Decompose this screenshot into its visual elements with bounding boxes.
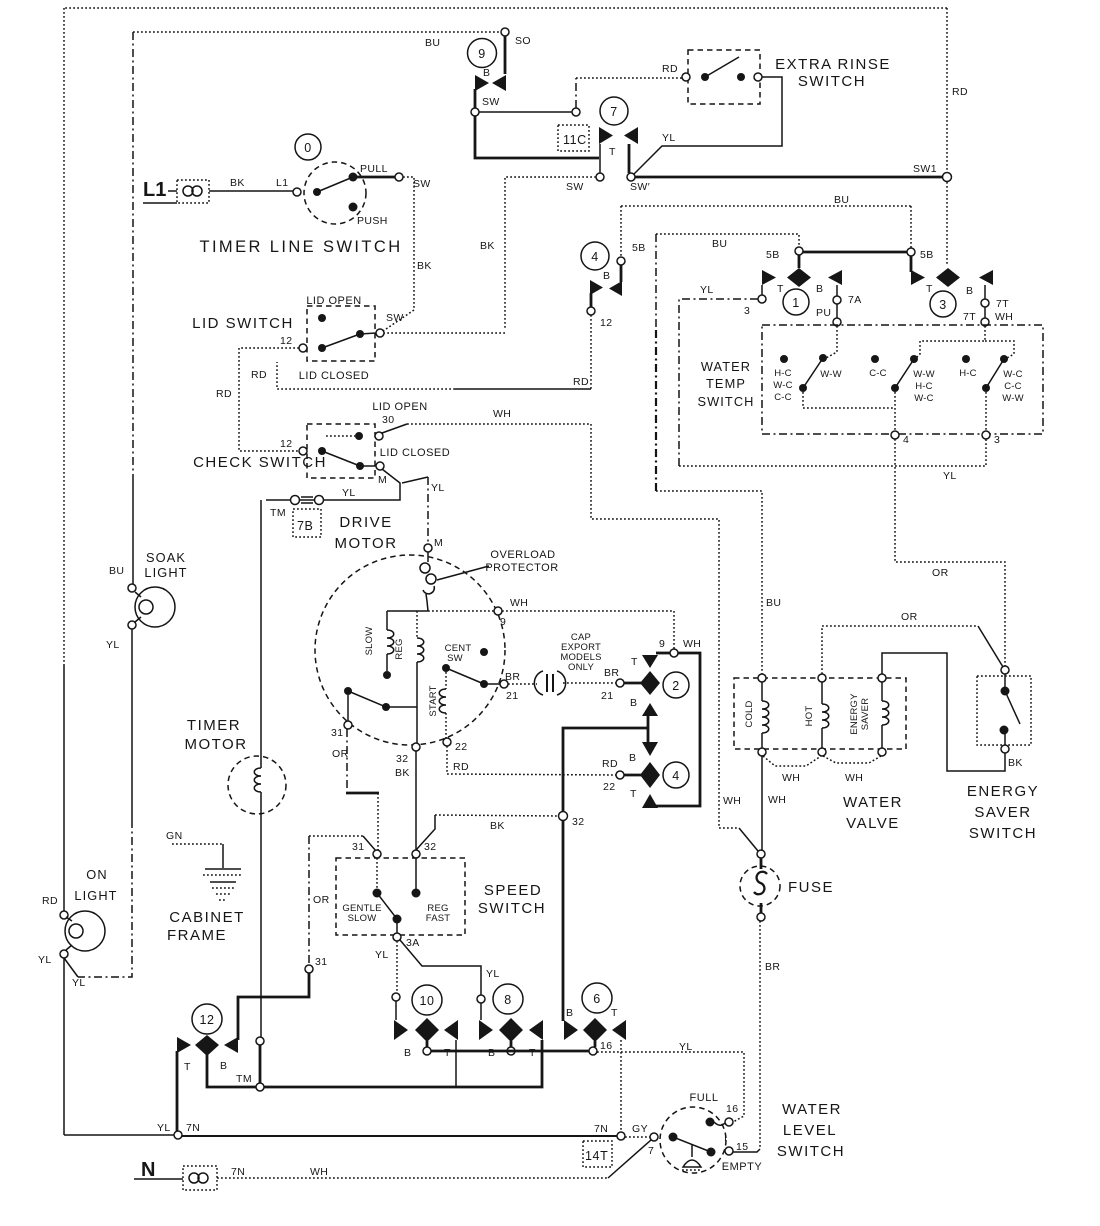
wire BK speed switch to node 32	[435, 815, 559, 816]
svg-text:L1: L1	[143, 179, 166, 201]
wire motor reg to node 32	[416, 707, 418, 743]
svg-text:ENERGY: ENERGY	[849, 693, 860, 735]
svg-text:RD: RD	[453, 761, 469, 773]
wire YL node3 to water temp pin3	[679, 299, 758, 466]
svg-text:SW: SW	[386, 312, 404, 324]
svg-text:B: B	[630, 697, 637, 709]
svg-text:3A: 3A	[406, 937, 420, 949]
svg-text:32: 32	[572, 816, 584, 828]
svg-text:HOT: HOT	[804, 706, 815, 727]
svg-text:SW1: SW1	[913, 163, 937, 175]
on light	[38, 867, 118, 989]
switch 4 contact triangles	[590, 270, 622, 296]
svg-text:GY: GY	[632, 1123, 648, 1135]
node 4 water temp	[891, 431, 899, 439]
svg-text:WATER: WATER	[843, 794, 903, 811]
wire SW node right to junction	[479, 111, 572, 113]
svg-text:PULL: PULL	[360, 163, 388, 175]
svg-text:4: 4	[672, 769, 680, 783]
svg-text:10: 10	[419, 994, 434, 1008]
svg-text:I: I	[724, 1132, 727, 1144]
svg-text:TEMP: TEMP	[706, 376, 746, 391]
node 32 motor	[412, 743, 420, 751]
switch 4 cam symbol	[629, 742, 660, 808]
node 22 motor	[443, 738, 451, 746]
svg-text:H-C: H-C	[774, 368, 792, 379]
node SO	[501, 28, 509, 36]
wire left RD run lower to ON light	[63, 665, 65, 911]
wire bank1 pivot to node 4	[803, 392, 895, 408]
svg-text:3: 3	[939, 298, 947, 312]
wire switch4 node to right triangle	[620, 265, 623, 282]
svg-text:B: B	[629, 752, 636, 764]
svg-text:L1: L1	[276, 177, 288, 189]
svg-text:5B: 5B	[632, 242, 646, 254]
svg-text:GN: GN	[166, 830, 183, 842]
svg-text:7T: 7T	[996, 298, 1009, 310]
fuse	[740, 850, 780, 921]
node SW (switch 7 left)	[596, 173, 604, 181]
svg-text:5B: 5B	[766, 249, 780, 261]
svg-text:16: 16	[726, 1103, 738, 1115]
centrifugal switch	[442, 643, 500, 688]
speed switch contacts	[342, 858, 450, 933]
wire thick 5B to 5B	[803, 251, 907, 254]
wire switch3 right triangle to 7T	[984, 285, 986, 299]
svg-text:BK: BK	[480, 240, 495, 252]
svg-text:RD: RD	[602, 758, 618, 770]
svg-text:32: 32	[396, 753, 408, 765]
svg-text:T: T	[630, 788, 637, 800]
svg-text:PUSH: PUSH	[357, 215, 388, 227]
wire lid switch SW to switch 7 left: dotted path	[505, 177, 596, 330]
wire L1 to timer line switch	[209, 190, 293, 192]
svg-text:B: B	[220, 1060, 227, 1072]
check switch contacts	[318, 447, 376, 470]
wire BU left vertical solid to soak light	[132, 477, 134, 584]
svg-text:WH: WH	[493, 408, 511, 420]
node 12 switch 4	[587, 307, 595, 315]
energy saver valve coil	[849, 674, 889, 756]
svg-text:T: T	[609, 146, 616, 158]
svg-text:9: 9	[659, 638, 665, 650]
svg-text:SLOW: SLOW	[348, 913, 377, 924]
switch 3 circle label	[930, 291, 956, 317]
wire 7N bottom bus	[64, 1134, 174, 1136]
wire BU bottom run to cold valve	[656, 491, 762, 674]
wire YL soak light down	[131, 629, 133, 820]
extra rinse contacts	[682, 73, 690, 81]
SLOW winding	[364, 611, 394, 679]
svg-text:PROTECTOR: PROTECTOR	[485, 562, 558, 574]
svg-text:RD: RD	[662, 63, 678, 75]
svg-text:W-C: W-C	[914, 393, 933, 404]
svg-text:SO: SO	[515, 35, 531, 47]
node 16 water level	[725, 1118, 733, 1126]
wire WH node9 to switch 2	[502, 611, 674, 649]
svg-text:WH: WH	[510, 597, 528, 609]
svg-text:ON: ON	[86, 867, 107, 882]
cold valve coil	[744, 674, 769, 756]
node 31 lower junction	[305, 965, 313, 973]
wire top border RD run	[65, 7, 947, 9]
node 31 motor	[344, 721, 352, 729]
svg-text:C-C: C-C	[1004, 381, 1022, 392]
svg-text:YL: YL	[431, 482, 445, 494]
water temp bank3 contacts	[959, 355, 1024, 404]
svg-text:M: M	[378, 474, 387, 486]
node junction right of switch 9	[572, 108, 580, 116]
svg-text:T: T	[184, 1061, 191, 1073]
svg-text:7B: 7B	[297, 519, 314, 533]
switch 1 cam symbol	[762, 268, 842, 295]
check switch box	[307, 424, 375, 478]
wire BK energy saver switch to saver coil	[882, 653, 1005, 771]
svg-text:8: 8	[504, 993, 512, 1007]
svg-text:9: 9	[478, 47, 486, 61]
svg-text:LID CLOSED: LID CLOSED	[299, 370, 369, 382]
wire switch6 T down to 7N GY node	[620, 1040, 622, 1132]
svg-text:RD: RD	[573, 376, 589, 388]
node 31 speed switch	[373, 850, 381, 858]
svg-text:SWITCH: SWITCH	[969, 825, 1037, 842]
node M drive motor	[424, 544, 432, 552]
switch 4 circle label	[581, 242, 609, 270]
svg-text:WATER: WATER	[782, 1101, 842, 1118]
node 12 check switch	[299, 447, 307, 455]
drive motor outline	[315, 555, 505, 745]
wire bank3 pivot to node 3	[985, 392, 987, 431]
svg-text:YL: YL	[486, 968, 500, 980]
svg-text:FRAME: FRAME	[167, 927, 227, 944]
svg-text:LID SWITCH: LID SWITCH	[192, 315, 294, 332]
node M check switch	[376, 462, 384, 470]
svg-text:32: 32	[424, 841, 436, 853]
svg-text:T: T	[777, 283, 784, 295]
wire node 32 down to switch 6	[562, 820, 565, 1021]
node 3A	[393, 933, 401, 941]
wire BR capacitor run	[508, 683, 537, 685]
svg-text:12: 12	[280, 438, 292, 450]
wire thick bracket switch2/4 block	[649, 653, 700, 806]
svg-text:SAVER: SAVER	[860, 698, 871, 731]
svg-text:BU: BU	[109, 565, 124, 577]
wire RD lid 12 to check 12	[239, 348, 299, 451]
node 5B right (switch 3)	[907, 248, 915, 256]
node 9 WH	[494, 607, 502, 615]
svg-text:T: T	[926, 283, 933, 295]
svg-text:WH: WH	[845, 772, 863, 784]
svg-text:22: 22	[455, 741, 467, 753]
wire RD node22 to switch 4	[447, 746, 616, 775]
svg-text:YL: YL	[943, 470, 957, 482]
wire capacitor to node 21 switch 2	[563, 682, 616, 684]
box terminal 7B	[293, 509, 321, 537]
node 32 junction	[559, 812, 568, 821]
svg-text:1: 1	[792, 296, 800, 310]
svg-text:LEVEL: LEVEL	[783, 1122, 837, 1139]
wire thick SW down and right to switch 7	[475, 116, 599, 158]
lid switch box	[307, 306, 375, 361]
svg-text:ONLY: ONLY	[568, 662, 594, 673]
svg-text:T: T	[444, 1047, 451, 1059]
svg-text:W-C: W-C	[1003, 369, 1022, 380]
terminal N	[134, 1159, 217, 1190]
svg-text:30: 30	[382, 414, 394, 426]
wire BU upper horizontal net	[621, 205, 911, 207]
node 15 water level	[725, 1147, 733, 1155]
wire switch12 diamond to TM node	[207, 1054, 256, 1087]
svg-text:12: 12	[280, 335, 292, 347]
svg-text:RD: RD	[952, 86, 968, 98]
water temp bank1 contacts	[773, 326, 841, 403]
svg-text:M: M	[434, 537, 443, 549]
node 12 lid switch	[299, 344, 307, 352]
svg-text:YL: YL	[662, 132, 676, 144]
wire BU top horizontal	[133, 31, 503, 33]
svg-text:B: B	[488, 1047, 495, 1059]
wire node22 to switch 4 diamond	[624, 774, 641, 777]
node TM	[256, 1083, 264, 1091]
svg-text:BU: BU	[834, 194, 849, 206]
water temp bank2 contacts	[869, 355, 935, 404]
switch 6	[582, 983, 612, 1013]
svg-text:12: 12	[199, 1013, 214, 1027]
svg-text:WH: WH	[723, 795, 741, 807]
wire SO down to switch 9	[504, 36, 507, 74]
svg-text:SPEED: SPEED	[484, 882, 542, 899]
svg-text:21: 21	[506, 690, 518, 702]
wire SW1 thick line to right	[635, 176, 944, 179]
node 21 motor	[500, 680, 508, 688]
svg-text:TIMER LINE SWITCH: TIMER LINE SWITCH	[199, 238, 402, 256]
svg-text:OR: OR	[332, 748, 349, 760]
node 5B switch 4	[617, 257, 625, 265]
node L1 at timer line switch	[293, 188, 301, 196]
svg-text:SWITCH: SWITCH	[798, 73, 866, 90]
wire SW1 down to switch 3 diamond	[946, 182, 948, 266]
node SW1 (switch 7 right)	[627, 173, 635, 181]
svg-text:C-C: C-C	[774, 392, 792, 403]
svg-text:WATER: WATER	[701, 359, 751, 374]
box terminal 14T	[583, 1141, 612, 1167]
svg-text:21: 21	[601, 690, 613, 702]
svg-text:SW: SW	[413, 178, 431, 190]
wire 7T down to box	[984, 307, 986, 318]
wire switch1 right triangle to 7A	[836, 285, 838, 296]
svg-text:B: B	[483, 67, 490, 79]
svg-text:LID CLOSED: LID CLOSED	[380, 447, 450, 459]
svg-text:6: 6	[593, 992, 601, 1006]
svg-text:YL: YL	[38, 954, 52, 966]
svg-text:W-W: W-W	[820, 369, 842, 380]
wire OR branch to node 31 lower	[309, 835, 363, 837]
svg-text:BR: BR	[765, 961, 780, 973]
wire 7A to PU	[836, 304, 838, 318]
wire thick 31 to switch 12 B	[238, 973, 309, 1040]
wire thick node9 to T triangle	[656, 652, 670, 655]
svg-text:12: 12	[600, 317, 612, 329]
pointer overload	[437, 566, 489, 580]
wire 7T link inside box	[916, 326, 985, 358]
wire switch 7 left leg	[599, 144, 601, 173]
box terminal 11C	[558, 125, 589, 151]
svg-text:SWITCH: SWITCH	[697, 394, 754, 409]
svg-text:WH: WH	[683, 638, 701, 650]
svg-text:B: B	[566, 1007, 573, 1019]
wire 5B down to switch 3 left triangle	[910, 256, 913, 272]
svg-text:SW: SW	[482, 96, 500, 108]
svg-text:FAST: FAST	[426, 913, 451, 924]
svg-text:MOTOR: MOTOR	[334, 535, 397, 552]
svg-text:BK: BK	[1008, 757, 1023, 769]
node timer motor junction	[256, 1037, 264, 1045]
svg-text:LIGHT: LIGHT	[74, 888, 117, 903]
water level switch	[648, 1107, 726, 1173]
svg-text:WH: WH	[310, 1166, 328, 1178]
svg-text:BK: BK	[417, 260, 432, 272]
switch 4 circle label (lower)	[663, 762, 689, 788]
svg-text:BK: BK	[490, 820, 505, 832]
switch 0 circle label	[295, 134, 321, 160]
wire timer motor node to TM node	[259, 1045, 262, 1083]
svg-text:BR: BR	[505, 671, 520, 683]
wire switch 7 right leg	[628, 144, 631, 173]
node 32 speed switch	[412, 850, 420, 858]
node SW timer line switch	[395, 173, 403, 181]
svg-text:LID OPEN: LID OPEN	[306, 295, 361, 307]
svg-text:YL: YL	[72, 977, 86, 989]
wire B2 to B4 and node 32	[647, 714, 650, 744]
svg-text:5B: 5B	[920, 249, 934, 261]
svg-text:3: 3	[744, 305, 750, 317]
svg-text:PU: PU	[816, 307, 831, 319]
svg-text:WH: WH	[782, 772, 800, 784]
soak light	[106, 550, 188, 651]
svg-text:OR: OR	[901, 611, 918, 623]
hot valve coil	[804, 674, 829, 756]
wire left border RD run upper	[63, 8, 65, 665]
timer motor	[228, 500, 286, 1037]
svg-text:0: 0	[304, 141, 312, 155]
svg-text:DRIVE: DRIVE	[339, 514, 392, 531]
wire M to YL to timer motor	[266, 469, 400, 500]
wire node21 to switch 2 diamond	[624, 682, 641, 685]
terminal L1	[143, 179, 209, 203]
wire switch 9 left contact to SW node	[474, 89, 477, 110]
svg-text:BU: BU	[766, 597, 781, 609]
wire on light down to 7N bus	[63, 958, 65, 1135]
svg-text:ENERGY: ENERGY	[967, 783, 1039, 800]
svg-text:EMPTY: EMPTY	[722, 1161, 763, 1173]
wire YL 3A to switch 8	[400, 940, 481, 995]
switch 2 cam symbol	[630, 655, 660, 716]
node SW (switch 9)	[471, 108, 479, 116]
ground cabinet frame	[166, 830, 243, 900]
svg-text:LIGHT: LIGHT	[144, 565, 187, 580]
svg-text:WH: WH	[768, 794, 786, 806]
node 16	[589, 1047, 597, 1055]
capacitor (cap export models only)	[534, 671, 565, 695]
svg-text:RD: RD	[251, 369, 267, 381]
svg-text:15: 15	[736, 1141, 748, 1153]
wire BU down to right 5B node	[910, 206, 912, 248]
switch 9 contact triangles	[475, 67, 506, 91]
svg-text:BU: BU	[425, 37, 440, 49]
wire switch4 left triangle down	[590, 293, 593, 307]
wire SW down to lid switch	[383, 177, 414, 331]
check switch lid open contact	[326, 401, 428, 440]
svg-text:BK: BK	[395, 767, 410, 779]
switch 2 circle label	[663, 672, 689, 698]
svg-text:SW: SW	[447, 653, 463, 664]
wire motor internal bus	[387, 610, 428, 612]
svg-text:RD: RD	[42, 895, 58, 907]
svg-text:CHECK SWITCH: CHECK SWITCH	[193, 454, 327, 471]
svg-text:BR: BR	[604, 667, 619, 679]
wire PULL contact out	[357, 176, 395, 179]
svg-text:OR: OR	[313, 894, 330, 906]
svg-text:7N: 7N	[186, 1122, 200, 1134]
svg-text:7T: 7T	[963, 311, 976, 323]
svg-text:31: 31	[315, 956, 327, 968]
switch 1 circle label	[783, 289, 809, 315]
node PU	[833, 318, 841, 326]
wire 30 WH run to fuse	[382, 424, 407, 433]
svg-text:SW: SW	[566, 181, 584, 193]
svg-text:COLD: COLD	[744, 700, 755, 727]
switch 8	[493, 984, 523, 1014]
wire WH link cold-hot	[763, 756, 821, 766]
svg-text:YL: YL	[342, 487, 356, 499]
switch 7 contact triangles	[599, 127, 638, 158]
START winding	[428, 672, 446, 738]
water valve box	[734, 678, 906, 749]
svg-text:H-C: H-C	[959, 368, 977, 379]
switch 10	[412, 985, 442, 1015]
wire TM bus to switch 8 T	[264, 1040, 542, 1087]
svg-text:W-C: W-C	[773, 380, 792, 391]
svg-text:31: 31	[352, 841, 364, 853]
node 5B left (switch 1)	[795, 247, 803, 255]
wire motor32 through speed switch node	[415, 751, 417, 850]
svg-text:B: B	[603, 270, 610, 282]
svg-text:SWITCH: SWITCH	[777, 1143, 845, 1160]
svg-text:SW′: SW′	[630, 181, 650, 193]
chain link connector	[291, 496, 324, 505]
node SW1 right	[943, 173, 952, 182]
svg-text:14T: 14T	[585, 1149, 608, 1163]
svg-text:YL: YL	[157, 1122, 171, 1134]
svg-text:T: T	[529, 1047, 536, 1059]
node 7T	[981, 299, 989, 307]
svg-text:7: 7	[648, 1145, 654, 1157]
svg-text:EXTRA RINSE: EXTRA RINSE	[775, 56, 891, 73]
node 9 WH top of switch 2	[670, 649, 678, 657]
wire 31 pivot down	[347, 695, 349, 721]
svg-text:TM: TM	[270, 507, 286, 519]
switch 12	[192, 1004, 222, 1034]
wire junction up and to extra rinse	[575, 78, 577, 108]
svg-text:N: N	[141, 1159, 155, 1181]
svg-text:VALVE: VALVE	[846, 815, 900, 832]
svg-text:T: T	[631, 656, 638, 668]
wire thick bus 10-8-6	[431, 1050, 589, 1053]
switch 9 circle label	[468, 39, 497, 68]
svg-text:START: START	[428, 685, 439, 716]
water temp switch box	[762, 325, 1043, 434]
svg-text:TIMER: TIMER	[187, 717, 241, 734]
